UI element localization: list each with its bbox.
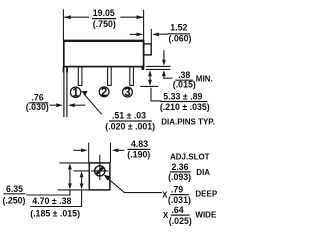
dimension 1.52 right arrow: [158, 33, 168, 35]
dimension line 19.05 left segment: [64, 16, 89, 18]
svg-text:.38: .38: [178, 70, 190, 80]
adjustment screw circle: [95, 166, 105, 176]
dimension .38 upper arrow: [163, 50, 165, 61]
pin 2: [108, 67, 112, 86]
adjustment screw boss (right side): [144, 44, 152, 55]
svg-text:(.210 ± .035): (.210 ± .035): [160, 102, 210, 112]
svg-text:(.250): (.250): [3, 195, 26, 205]
svg-text:DIA.PINS TYP.: DIA.PINS TYP.: [161, 118, 215, 127]
svg-text:(.185 ± .015): (.185 ± .015): [30, 209, 80, 219]
extension line boss right edge: [150, 29, 152, 44]
svg-text:WIDE: WIDE: [195, 211, 217, 220]
svg-text:1.52: 1.52: [170, 22, 187, 32]
svg-text:(.093): (.093): [168, 172, 191, 182]
dimension 5.33 double arrow: [149, 73, 151, 83]
end view square: [89, 163, 110, 190]
pin 1: [78, 67, 82, 86]
svg-text:.51 ± .03: .51 ± .03: [112, 111, 146, 121]
extension line screw center left: [73, 170, 88, 172]
svg-text:3: 3: [124, 87, 130, 99]
pin 3: [130, 67, 134, 86]
extension line right (19.05): [143, 10, 145, 41]
pin 1 circle: [70, 87, 80, 97]
svg-text:(.060): (.060): [169, 34, 192, 44]
extension line square bottom left: [58, 189, 90, 191]
dimension 4.70 double arrow: [81, 175, 83, 187]
dimension 1.52 left arrow: [130, 33, 138, 35]
svg-text:(.190): (.190): [127, 150, 150, 160]
extension line square top left: [59, 162, 89, 164]
screw slot: [96, 167, 104, 175]
extension line standoff (right): [146, 68, 170, 70]
svg-text:4.70 ± .38: 4.70 ± .38: [32, 196, 71, 206]
extension line left (19.05): [62, 9, 64, 41]
svg-text:2: 2: [101, 87, 107, 99]
svg-text:1: 1: [72, 87, 79, 99]
leader from pin 1 to pin dia note: [84, 94, 102, 114]
svg-text:5.33 ± .89: 5.33 ± .89: [163, 92, 202, 102]
svg-text:(.031): (.031): [168, 195, 191, 205]
dimension .38 lower arrow with leader: [162, 70, 166, 76]
svg-text:.79: .79: [171, 184, 183, 194]
extension line body bottom (right): [146, 65, 171, 67]
left wall twin lines (.76 wall): [63, 67, 65, 117]
svg-text:(.025): (.025): [169, 216, 192, 226]
svg-text:2.36: 2.36: [171, 162, 188, 172]
dimension 4.83 arrows: [74, 149, 82, 151]
svg-text:DEEP: DEEP: [195, 190, 217, 199]
pin tip extension line: [140, 85, 158, 87]
dimension line 19.05 right segment: [120, 16, 143, 18]
body outline (side view): [64, 41, 144, 67]
bracket to 5.33 text: [151, 88, 162, 101]
pin 2 circle: [99, 87, 109, 97]
pin 3 circle: [123, 87, 133, 97]
screw horizontal centerline: [91, 170, 109, 172]
screw vertical centerline: [99, 155, 101, 180]
right foot: [142, 67, 145, 70]
svg-text:19.05: 19.05: [93, 8, 115, 18]
svg-text:4.83: 4.83: [131, 139, 148, 149]
dimension .76 arrows: [50, 104, 57, 106]
dimension 6.35 double arrow: [69, 167, 71, 186]
svg-text:DIA: DIA: [196, 168, 210, 177]
svg-text:(.750): (.750): [93, 19, 116, 29]
svg-text:(.030): (.030): [26, 102, 49, 112]
svg-text:(.020 ± .001): (.020 ± .001): [105, 122, 155, 132]
svg-text:.64: .64: [171, 205, 183, 215]
svg-text:MIN.: MIN.: [196, 74, 213, 83]
svg-text:.76: .76: [31, 92, 43, 102]
svg-text:ADJ.SLOT: ADJ.SLOT: [170, 152, 210, 161]
leader from screw slot to notes: [106, 177, 162, 193]
extension lines up (4.83): [88, 143, 90, 163]
svg-text:(.015): (.015): [173, 79, 196, 89]
svg-text:6.35: 6.35: [6, 184, 23, 194]
